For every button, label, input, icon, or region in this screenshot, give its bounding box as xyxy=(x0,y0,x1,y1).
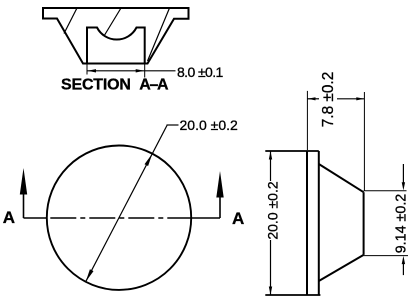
svg-text:8.0 ±0.1: 8.0 ±0.1 xyxy=(177,64,224,80)
cone small end edge xyxy=(363,192,365,255)
dim 8.0 arrow right xyxy=(136,69,145,72)
dim 9.14 extension top xyxy=(364,190,407,192)
dim 7.8 arrow right xyxy=(356,97,364,100)
dim 7.8 extension left xyxy=(306,91,308,150)
svg-text:7.8 ±0.2: 7.8 ±0.2 xyxy=(320,72,337,128)
cutting plane bend right xyxy=(219,197,221,218)
dim 7.8 dimension line right segment xyxy=(337,98,364,100)
diameter arrow top right xyxy=(145,154,153,166)
dim 9.14 extension bottom xyxy=(364,255,408,257)
svg-text:SECTION: SECTION xyxy=(61,76,131,93)
cone bottom taper xyxy=(319,255,364,281)
section arrow right xyxy=(216,171,223,198)
svg-text:A: A xyxy=(232,209,244,228)
dim 8.0 extension line left xyxy=(86,64,88,75)
svg-text:A–A: A–A xyxy=(139,76,169,93)
cutting plane bend left xyxy=(23,194,25,218)
front view circle xyxy=(47,146,191,290)
dim 9.14 arrow stem top xyxy=(402,164,404,183)
hatch line H1 left xyxy=(64,8,77,34)
svg-text:20.0 ±0.2: 20.0 ±0.2 xyxy=(265,181,281,239)
section view inner cavity with dome xyxy=(87,28,145,64)
cutting plane line right solid xyxy=(191,217,220,219)
dim 7.8 dimension line left segment xyxy=(307,98,319,100)
cutting plane line dashed center xyxy=(50,217,191,219)
svg-text:9.14 ±0.2: 9.14 ±0.2 xyxy=(394,194,410,254)
dim 7.8 arrow left xyxy=(308,97,316,100)
svg-text:20.0 ±0.2: 20.0 ±0.2 xyxy=(180,117,238,133)
side view flange right edge xyxy=(318,151,320,295)
dim 8.0 dimension line xyxy=(87,70,176,72)
hatch line H2 middle xyxy=(104,8,121,36)
diameter arrow bottom left xyxy=(86,269,94,281)
hatch line H3 right xyxy=(148,8,170,61)
svg-text:A: A xyxy=(3,208,15,227)
side view bottom edge with extension xyxy=(265,294,320,296)
cutting plane line left solid xyxy=(24,217,48,219)
dim 9.14 arrow stem bottom xyxy=(402,264,404,275)
side view top edge with extension xyxy=(265,150,319,152)
dim 20.0 arrow top xyxy=(269,151,272,159)
dim 9.14 arrow bottom pointing up xyxy=(402,256,405,264)
dim 9.14 arrow top pointing down xyxy=(402,182,405,190)
diameter leader elbow xyxy=(167,124,179,126)
dim 8.0 arrow left xyxy=(88,69,97,72)
diameter dimension line xyxy=(86,125,168,282)
side view flange left edge xyxy=(306,151,308,295)
dim 7.8 extension right xyxy=(363,92,365,191)
cone top taper xyxy=(319,164,364,192)
dim 20.0 arrow bottom xyxy=(269,287,272,295)
section arrow left xyxy=(20,168,27,195)
dim 8.0 extension line right xyxy=(144,64,146,78)
dim 20.0 dimension line lower segment xyxy=(270,240,272,295)
dim 20.0 dimension line upper segment xyxy=(270,151,272,181)
section view outer profile xyxy=(43,8,189,64)
